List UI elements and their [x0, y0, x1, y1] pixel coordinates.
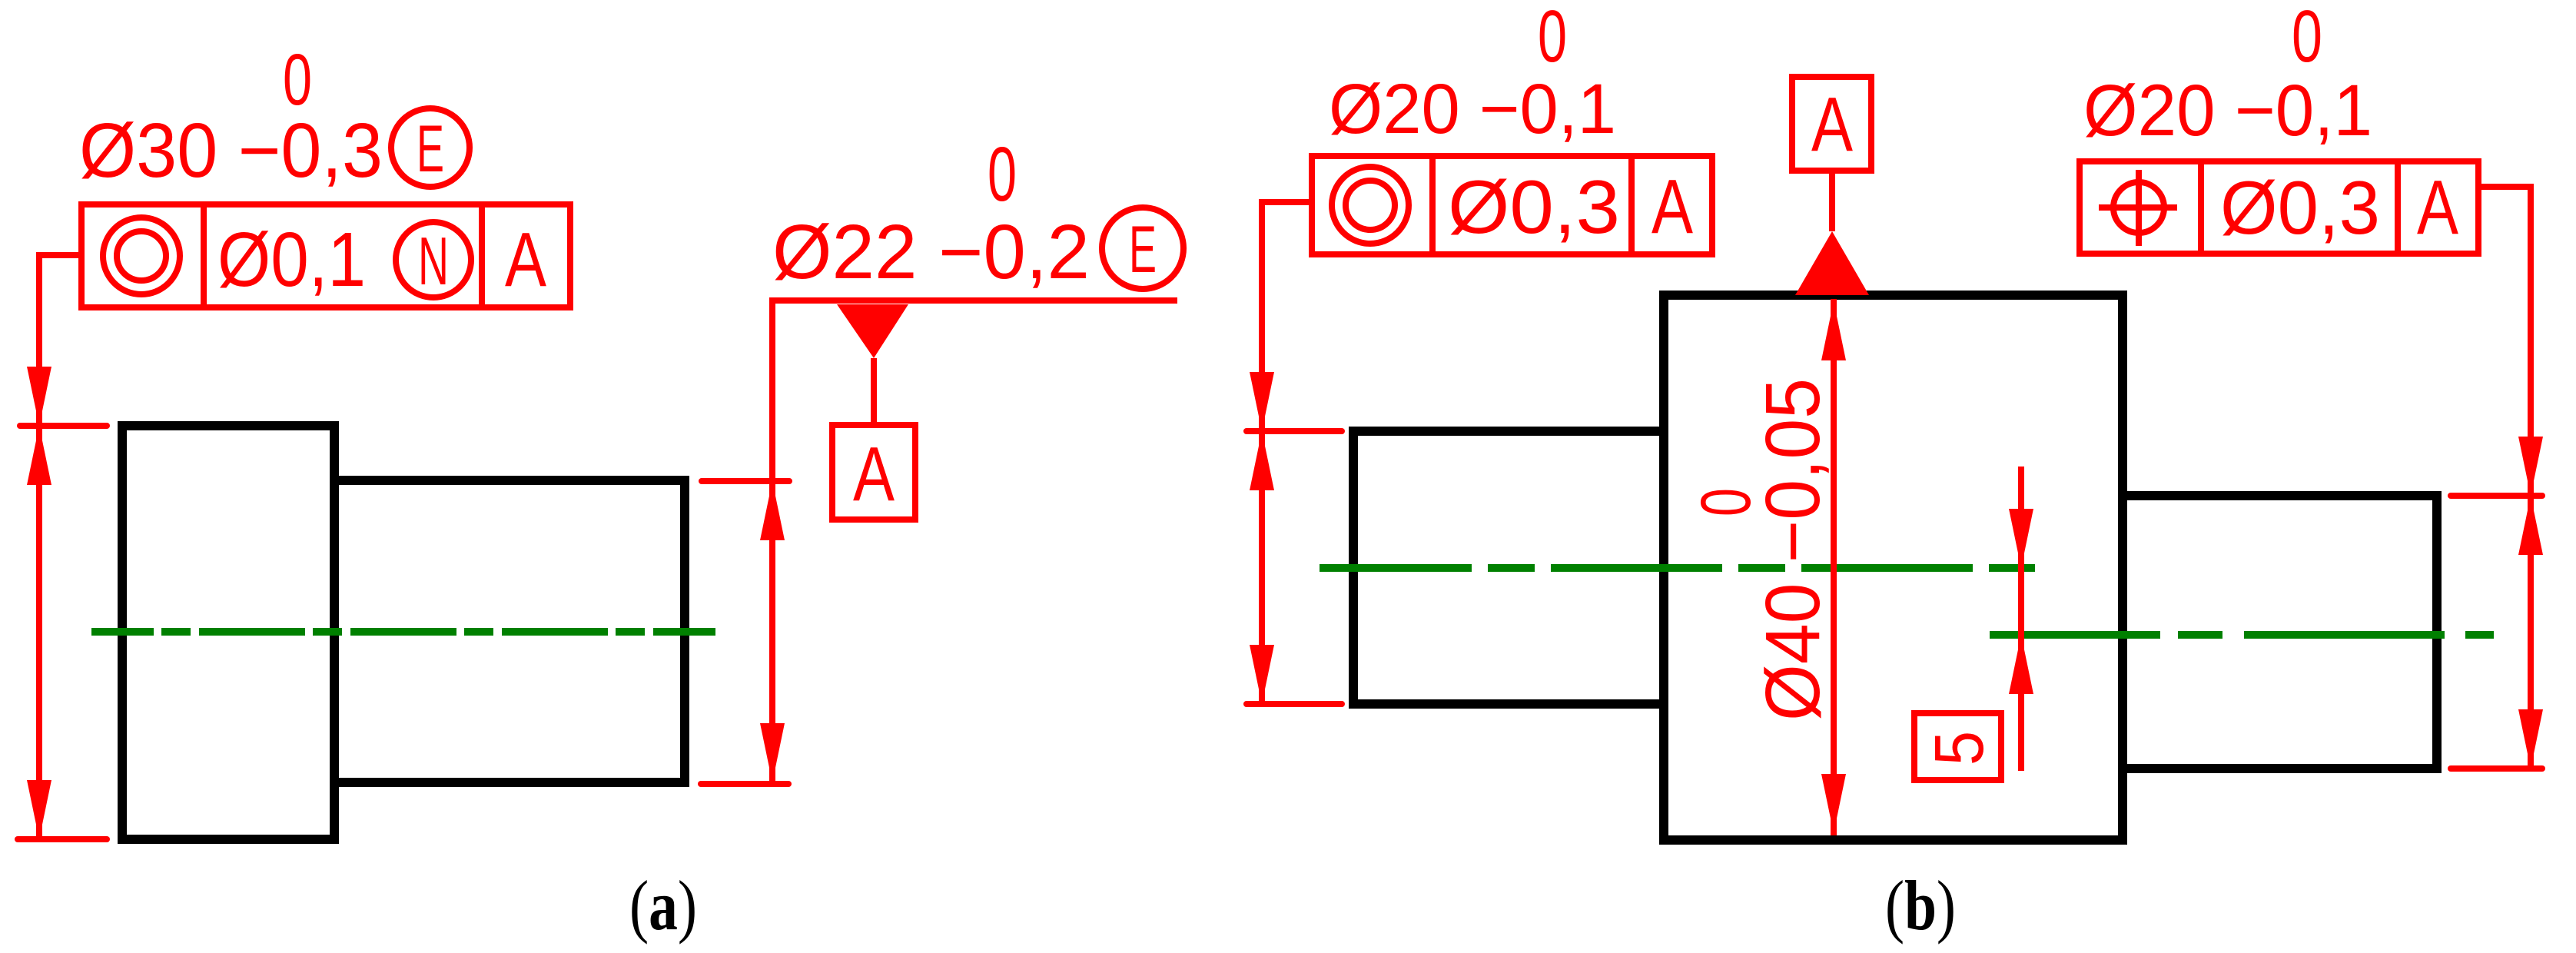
dimension arrow up at top tick (a)	[27, 426, 51, 485]
svg-text:0: 0	[1538, 0, 1567, 78]
centerline (a)	[91, 628, 715, 636]
part outline (a): small cylinder ø22	[334, 480, 685, 782]
svg-text:Ø22 −0,2: Ø22 −0,2	[772, 209, 1090, 295]
dimension arrow up ø40 top	[1821, 301, 1846, 360]
dimension arrow down at bottom tick (a)	[27, 780, 51, 839]
feature control frame (b left)	[1312, 156, 1712, 254]
arrow up to lower axis (b)	[2009, 635, 2033, 694]
extension tick bottom (a) ø30	[18, 836, 107, 842]
datum box A (b top)	[1792, 77, 1871, 171]
extension tick bottom (a) ø22	[701, 781, 788, 787]
datum box A (a)	[832, 425, 915, 520]
part outline (b): center cylinder ø40	[1664, 295, 2123, 840]
leader from FCF (b right)	[2478, 187, 2531, 769]
envelope modifier E circled (a left)	[391, 108, 470, 187]
svg-text:Ø0,3: Ø0,3	[2220, 165, 2380, 250]
datum stem (b top)	[1829, 171, 1835, 231]
concentricity symbol (b left)	[1332, 167, 1409, 244]
leader arrow down at top tick (a)	[27, 367, 51, 426]
leader arrow down at top tick (b left)	[1250, 372, 1274, 431]
dimension arrow down (a right bottom)	[760, 723, 785, 782]
svg-text:A: A	[853, 431, 895, 517]
svg-text:(a): (a)	[629, 866, 697, 945]
arrow down to upper axis (b)	[2009, 509, 2033, 568]
leader stub from FCF (b left)	[1262, 202, 1312, 704]
svg-text:0: 0	[2292, 0, 2322, 78]
extension tick bottom (b right)	[2451, 765, 2542, 772]
svg-text:0: 0	[988, 131, 1017, 217]
svg-text:Ø40 −0,05: Ø40 −0,05	[1750, 378, 1836, 721]
svg-text:A: A	[1811, 81, 1853, 168]
svg-text:5: 5	[1921, 731, 1998, 765]
modifier circle N (a)	[396, 222, 471, 297]
svg-text:0: 0	[1687, 488, 1765, 516]
extension tick top (a) ø22	[702, 478, 789, 484]
centerline (b) lower axis	[1990, 631, 2494, 639]
extension tick top (b left)	[1247, 428, 1342, 434]
leader stub from FCF (a)	[39, 255, 81, 839]
svg-text:Ø0,1: Ø0,1	[217, 217, 366, 303]
datum triangle (b top)	[1795, 231, 1869, 295]
dimension line ø40 (b)	[1831, 299, 1837, 835]
svg-text:Ø20 −0,1: Ø20 −0,1	[1329, 70, 1616, 148]
concentricity symbol (a)	[103, 217, 180, 294]
svg-text:A: A	[1651, 164, 1693, 250]
dimension arrow up at top tick (b left)	[1250, 431, 1274, 490]
part outline (b): right cylinder ø20	[2123, 496, 2437, 769]
part outline (b): left cylinder ø20	[1353, 431, 1664, 704]
svg-text:0: 0	[283, 39, 312, 121]
feature control frame (b right)	[2080, 161, 2478, 254]
svg-text:A: A	[505, 217, 546, 303]
svg-text:(b): (b)	[1885, 866, 1956, 945]
svg-text:A: A	[2417, 164, 2458, 251]
svg-text:N: N	[418, 223, 449, 299]
leader arrow down at top tick (b right)	[2518, 437, 2543, 496]
part outline (a): large cylinder ø30	[122, 426, 334, 839]
dimension arrow down at bottom tick (b right)	[2518, 709, 2543, 769]
svg-text:Ø20 −0,1: Ø20 −0,1	[2083, 70, 2372, 151]
datum triangle (a)	[837, 304, 908, 358]
dimension shoulder line (a right)	[772, 301, 1177, 782]
offset dimension line 5 (b)	[2018, 467, 2024, 771]
centerline (b) upper axis	[1320, 564, 2035, 572]
dimension arrow down at bottom tick (b left)	[1250, 645, 1274, 704]
envelope modifier E circled (a right)	[1102, 208, 1183, 289]
datum stem (a)	[871, 358, 877, 425]
svg-text:E: E	[1129, 213, 1157, 287]
svg-text:E: E	[417, 112, 444, 186]
extension tick top (b right)	[2451, 493, 2542, 499]
boxed value 5 (b)	[1914, 713, 2001, 780]
position symbol (b right)	[2113, 182, 2164, 233]
dimension arrow up at top tick (b right)	[2518, 496, 2543, 555]
svg-text:Ø0,3: Ø0,3	[1448, 164, 1620, 249]
svg-text:Ø30 −0,3: Ø30 −0,3	[79, 108, 383, 194]
extension tick top (a) ø30	[20, 423, 107, 429]
dimension arrow down ø40 bottom	[1821, 774, 1846, 833]
extension tick bottom (b left)	[1247, 701, 1342, 707]
dimension arrow up (a right top)	[760, 481, 785, 540]
feature control frame (a)	[81, 204, 570, 307]
